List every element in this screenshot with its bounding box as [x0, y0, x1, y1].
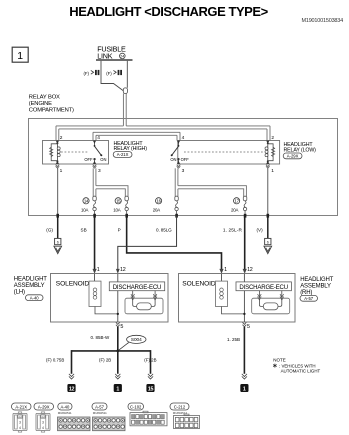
LH discharge ECU U3 — [109, 274, 164, 314]
RH solenoid L2 — [216, 274, 228, 307]
relay high pin1 wire to node G — [57, 168, 59, 215]
svg-text:ASSEMBLY: ASSEMBLY — [14, 283, 45, 289]
svg-text:S004: S004 — [131, 337, 142, 342]
relay low internal dashed link — [184, 151, 264, 153]
svg-text:20A: 20A — [231, 208, 238, 213]
wire 0.85B-W LH pin5 down — [117, 327, 119, 351]
relay low pin1 wire to node V — [267, 168, 269, 215]
wire (F) 2B to ground 15 — [150, 350, 152, 374]
ground point 15 — [146, 384, 154, 393]
note block — [273, 358, 320, 374]
svg-text:12: 12 — [247, 267, 253, 273]
svg-text:ASSEMBLY: ASSEMBLY — [300, 284, 331, 290]
svg-text:3: 3 — [98, 168, 101, 174]
svg-text:2: 2 — [60, 135, 63, 141]
fuse 14 — [81, 198, 96, 216]
LH pin 5 terminal — [116, 322, 120, 327]
svg-text:AUTOMATIC LIGHT: AUTOMATIC LIGHT — [281, 369, 321, 374]
svg-text:1: 1 — [60, 168, 63, 174]
svg-text:20A: 20A — [153, 208, 160, 213]
svg-text:1: 1 — [17, 50, 23, 62]
bus2 drop to relay high pin4 — [92, 132, 94, 140]
svg-text:4: 4 — [42, 426, 44, 430]
svg-text:(F) 2B: (F) 2B — [99, 357, 111, 362]
svg-text:1: 1 — [116, 387, 119, 393]
LH junction node — [117, 313, 119, 315]
svg-text:ON: ON — [170, 157, 176, 162]
svg-text:4: 4 — [182, 135, 185, 141]
relay box label — [29, 95, 74, 114]
wire SB fuse14 to LH pin1 — [94, 216, 96, 270]
svg-text:0. 85B-W: 0. 85B-W — [91, 335, 111, 340]
svg-text:C-102: C-102 — [130, 404, 142, 409]
fusible link bus bar — [96, 59, 133, 61]
ground branch wire — [72, 350, 151, 352]
svg-text:3: 3 — [182, 168, 185, 174]
svg-text:1. 25B: 1. 25B — [227, 337, 240, 342]
fusible link right wire — [126, 61, 128, 88]
svg-text:1. 25L-R: 1. 25L-R — [223, 227, 243, 232]
sheet index box 1 — [12, 47, 28, 62]
bus1 drop to relay high pin2 — [55, 126, 57, 141]
svg-text:A-29X: A-29X — [38, 404, 50, 409]
svg-text:1: 1 — [271, 168, 274, 174]
svg-text:4: 4 — [19, 426, 21, 430]
svg-text:C-212: C-212 — [174, 404, 186, 409]
svg-text:12: 12 — [120, 267, 126, 273]
LH solenoid return wire — [95, 307, 118, 314]
svg-text:(F) 0.75B: (F) 0.75B — [46, 357, 64, 362]
svg-text:(LH): (LH) — [14, 290, 25, 296]
svg-text:6: 6 — [57, 241, 59, 245]
splice S004 — [119, 335, 146, 350]
svg-text:A-21X: A-21X — [117, 152, 129, 157]
svg-text:RELAY BOX: RELAY BOX — [29, 95, 60, 101]
connector table A-29X — [34, 403, 54, 432]
LH solenoid L1 — [89, 274, 101, 307]
RH junction node — [243, 313, 245, 315]
relay box outline — [29, 119, 338, 216]
relay U1 headlight relay high box — [43, 141, 109, 165]
ground point 1 RH — [240, 384, 248, 393]
svg-text:A-29X: A-29X — [287, 154, 299, 159]
svg-text:SB: SB — [81, 227, 87, 232]
svg-text:(G): (G) — [46, 227, 53, 232]
headlight assembly LH box — [51, 274, 169, 323]
headlight assembly RH box — [179, 274, 296, 323]
svg-text:1: 1 — [97, 267, 100, 273]
hollow wire relay high pin3 to fuse 14 and fuse 15 — [93, 168, 129, 201]
offpage connector node G — [54, 238, 62, 253]
bus2 drop to relay low pin4 — [179, 132, 181, 140]
headlight assembly RH label — [300, 277, 334, 301]
svg-text:OFF: OFF — [181, 157, 190, 162]
relay high label — [113, 141, 147, 158]
svg-text:A-57: A-57 — [304, 296, 314, 301]
svg-text:10A: 10A — [113, 208, 120, 213]
svg-text:12: 12 — [69, 387, 75, 393]
fuse 16 — [153, 198, 178, 216]
bus2 hollow wire — [93, 132, 180, 140]
svg-text:MU802511: MU802511 — [93, 411, 107, 415]
connector table C-102 — [128, 403, 167, 426]
svg-text:3: 3 — [19, 420, 21, 424]
svg-text:DISCHARGE-ECU: DISCHARGE-ECU — [239, 284, 288, 291]
relay high internal dashed link — [61, 151, 89, 153]
relay low label — [283, 142, 316, 159]
svg-text:OFF: OFF — [84, 157, 93, 162]
RH discharge ECU U4 — [236, 274, 291, 314]
wire 1.25L-R fuse17 to RH pin12 — [244, 216, 246, 270]
LH discharge bulb — [137, 303, 152, 310]
svg-text:HEADLIGHT <DISCHARGE TYPE>: HEADLIGHT <DISCHARGE TYPE> — [69, 4, 268, 19]
border crossing marks — [56, 214, 269, 218]
svg-text:10A: 10A — [81, 208, 88, 213]
fuse 15 — [113, 198, 128, 216]
svg-text:12: 12 — [18, 415, 22, 419]
svg-text:M1901001503834: M1901001503834 — [301, 18, 343, 24]
svg-text:(F): (F) — [84, 71, 90, 76]
svg-text:(V): (V) — [257, 227, 264, 232]
svg-text:SOLENOID: SOLENOID — [56, 280, 90, 287]
svg-text:A-40: A-40 — [30, 295, 40, 300]
ground terminal chevrons — [69, 374, 247, 379]
relay low switch — [170, 141, 189, 164]
wire (F) 0.75B to ground 12 — [71, 350, 73, 374]
svg-text:24: 24 — [120, 55, 124, 59]
headlight assembly LH label — [14, 276, 47, 300]
fusible link loop wire — [101, 61, 124, 91]
RH solenoid return wire — [222, 307, 245, 314]
wire 1.25B RH pin5 down — [243, 327, 245, 374]
svg-text:ON: ON — [100, 157, 106, 162]
svg-text:5: 5 — [120, 324, 123, 330]
RH pin 5 terminal — [243, 322, 247, 327]
ground point 1 — [114, 384, 122, 393]
connector table A-57 — [92, 403, 125, 431]
ground branch node — [116, 350, 119, 353]
ground point 12 — [67, 384, 75, 393]
svg-text:1: 1 — [243, 387, 246, 393]
svg-text:A-57: A-57 — [95, 404, 105, 409]
relay low pin terminals arrows — [177, 141, 270, 164]
svg-text:5: 5 — [247, 324, 250, 330]
svg-text:15: 15 — [148, 387, 154, 393]
fuse 17 — [231, 198, 247, 216]
svg-text:2: 2 — [271, 135, 274, 141]
fusible link connector mark left (F) — [84, 70, 100, 76]
svg-text:SOLENOID: SOLENOID — [182, 280, 216, 287]
RH ECU return wire — [243, 291, 245, 322]
RH discharge bulb — [263, 303, 278, 310]
fusible link connector mark right (F) — [106, 70, 122, 76]
svg-text:HEADLIGHT: HEADLIGHT — [14, 276, 47, 282]
battery feed hollow wire down to bus — [122, 94, 124, 126]
svg-text:1: 1 — [224, 267, 227, 273]
svg-text:(F): (F) — [106, 71, 112, 76]
svg-text:MU802511: MU802511 — [58, 411, 72, 415]
offpage connector node V — [264, 238, 272, 253]
svg-text:A-21X: A-21X — [15, 404, 27, 409]
fusible link label — [97, 45, 126, 61]
svg-text:A-40: A-40 — [60, 404, 70, 409]
svg-text:NOTE: NOTE — [273, 358, 286, 363]
relay high switch — [84, 141, 106, 164]
svg-text:HEADLIGHT: HEADLIGHT — [300, 277, 333, 283]
relay high coil — [50, 141, 61, 164]
relay high pin terminals arrows — [56, 141, 96, 164]
connector table A-21X — [12, 403, 32, 432]
wire (F) 2B to ground 1 — [117, 351, 119, 374]
svg-text:DISCHARGE-ECU: DISCHARGE-ECU — [113, 284, 162, 291]
relay U2 headlight relay low box — [178, 141, 280, 165]
svg-text:(ENGINE: (ENGINE — [29, 101, 52, 107]
bus1 hollow wire top — [56, 126, 270, 141]
svg-text:0. 85LG: 0. 85LG — [156, 227, 172, 232]
relay low coil — [265, 141, 275, 164]
connector table A-40 — [58, 403, 91, 431]
connector table C-212 — [170, 403, 200, 429]
bus1 drop to relay low pin2 — [269, 126, 271, 141]
svg-text:(F) 2B: (F) 2B — [144, 357, 156, 362]
svg-text:12: 12 — [41, 415, 45, 419]
svg-text:6: 6 — [267, 241, 269, 245]
fusible link inline connector capsule — [123, 88, 127, 94]
wire P fuse15 to RH pin1 — [127, 216, 222, 270]
wire 0.85LG fuse16 to LH pin12 — [118, 216, 177, 270]
LH ECU return wire — [117, 291, 119, 322]
svg-text:P: P — [118, 227, 121, 232]
svg-text:COMPARTMENT): COMPARTMENT) — [29, 108, 74, 114]
svg-text:3: 3 — [42, 420, 44, 424]
svg-text:4: 4 — [97, 135, 100, 141]
hollow wire relay low pin3 to fuse 16 and fuse 17 — [175, 168, 247, 201]
